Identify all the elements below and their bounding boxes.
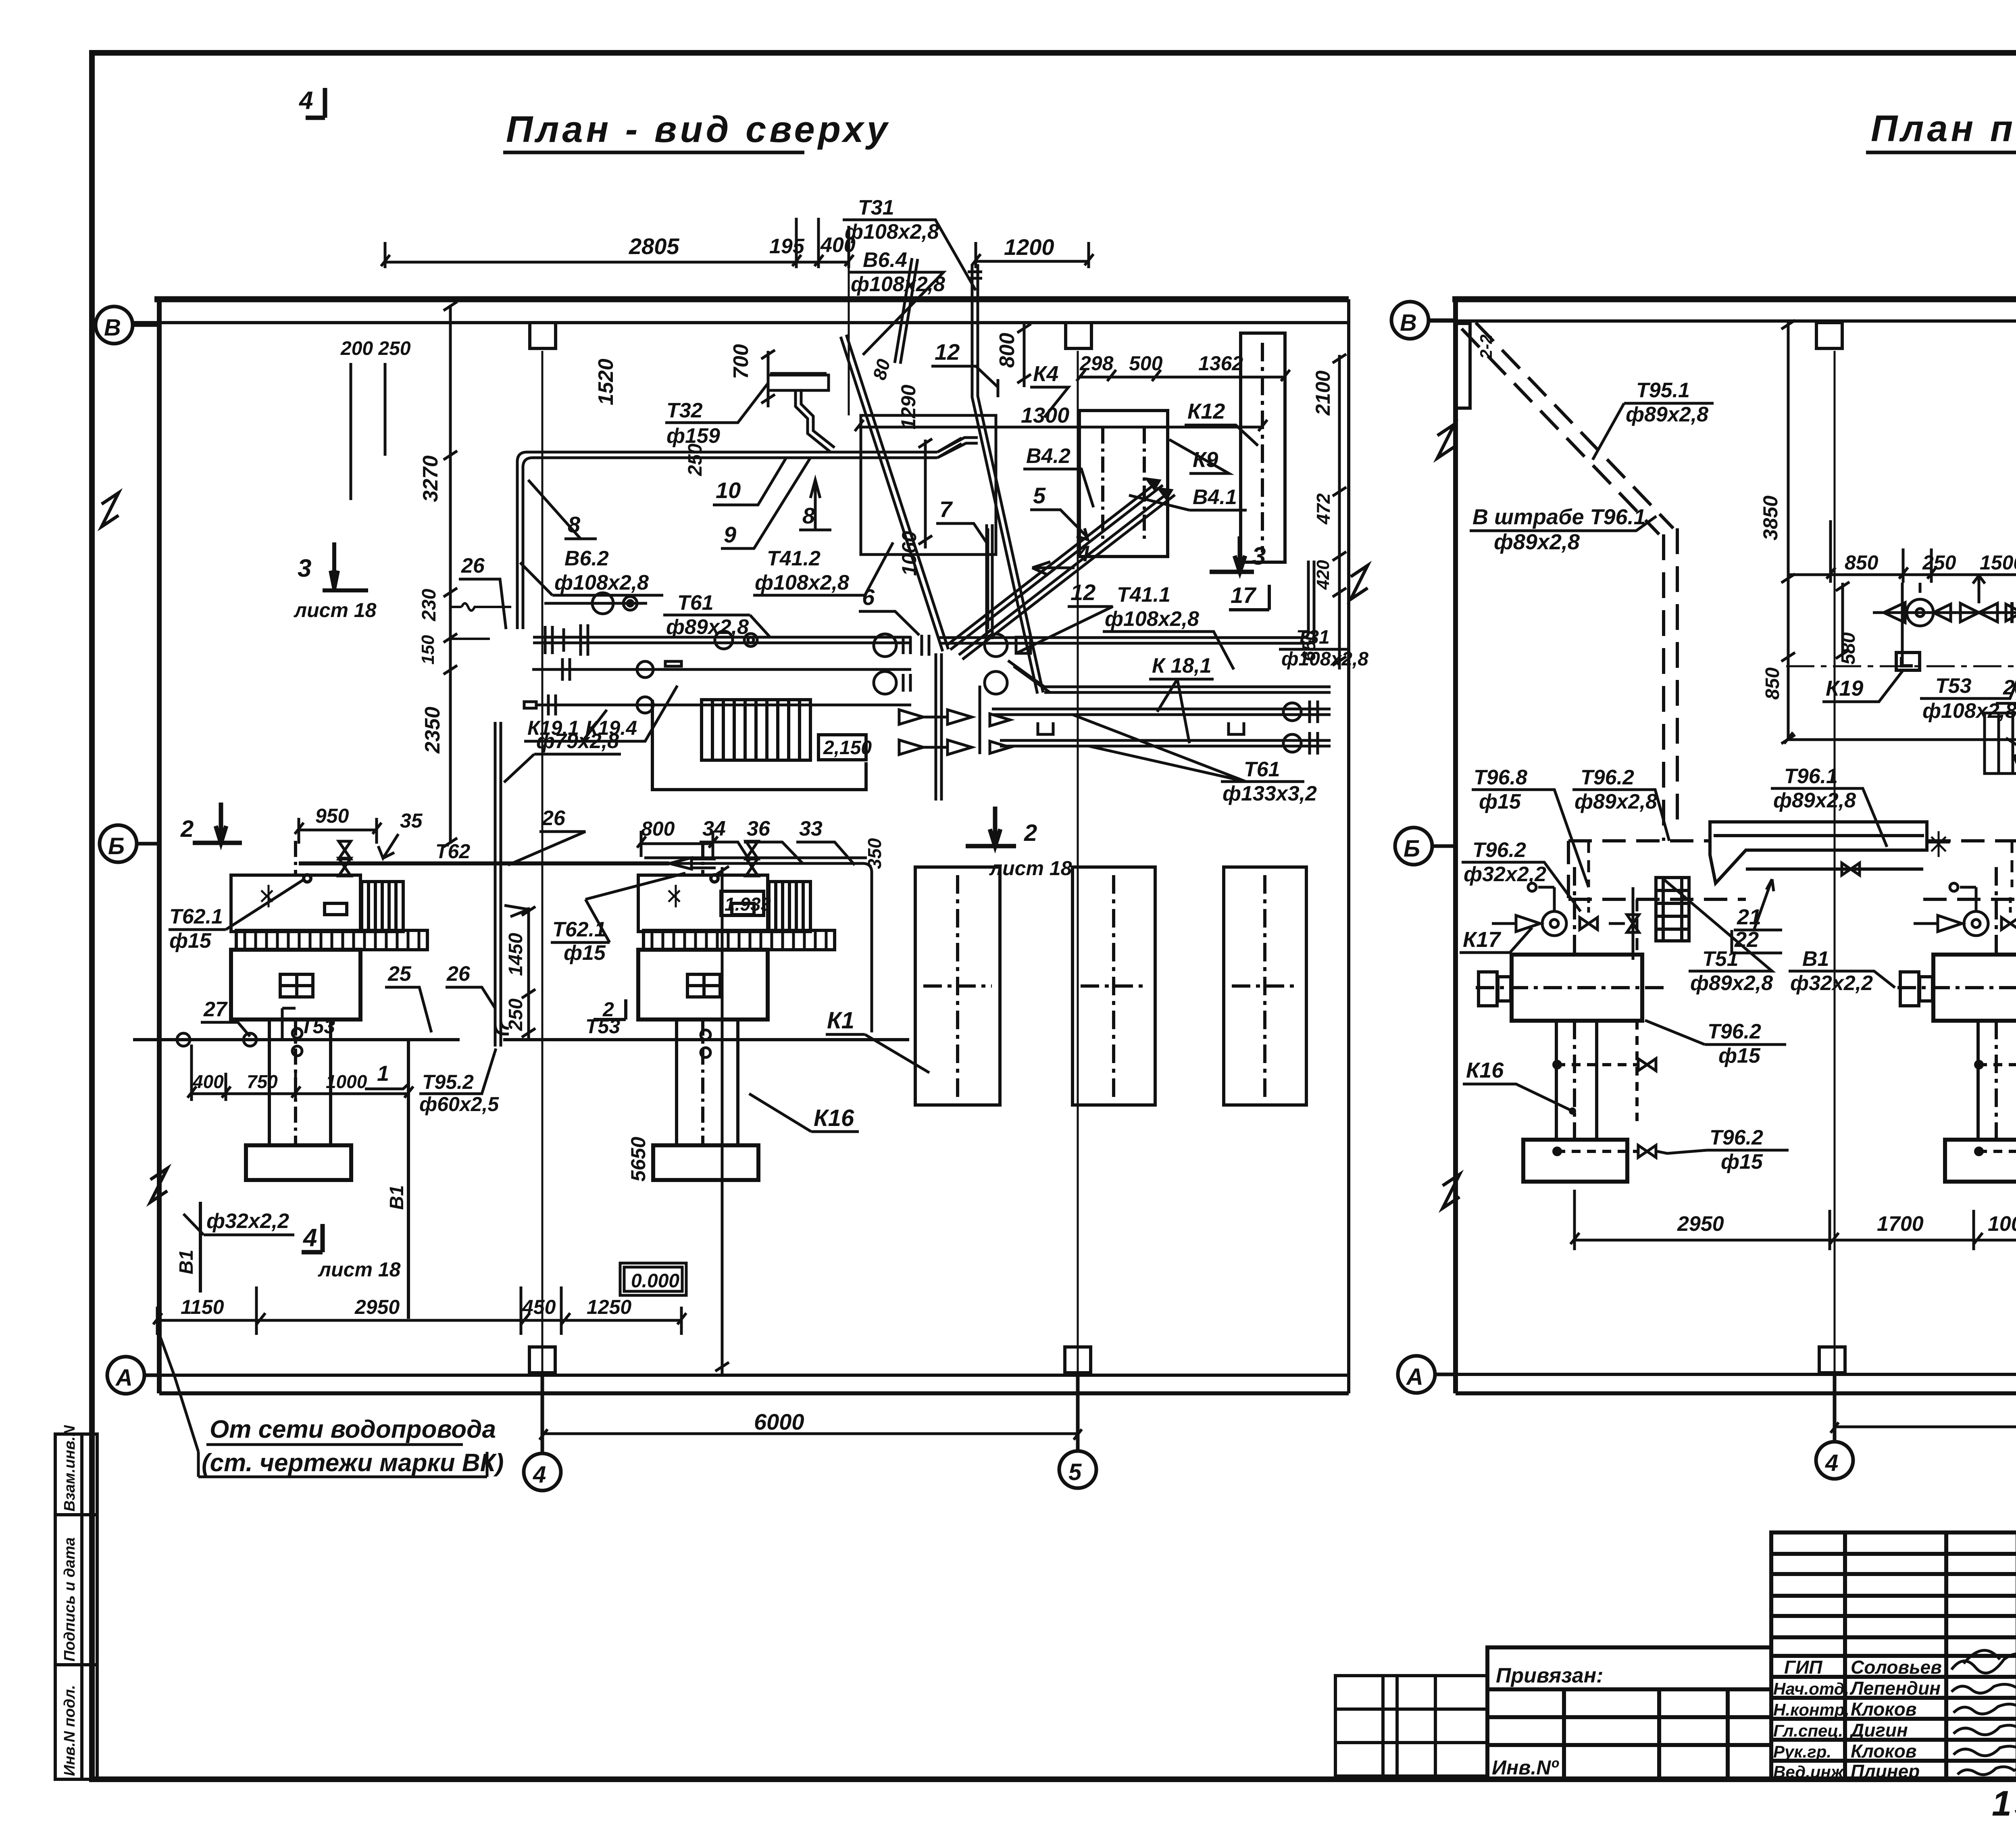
svg-text:3270: 3270 [419, 455, 442, 502]
svg-text:5650: 5650 [627, 1137, 650, 1182]
svg-text:250: 250 [685, 444, 706, 476]
svg-text:1450: 1450 [505, 933, 527, 976]
svg-text:Т95.2: Т95.2 [422, 1071, 474, 1093]
stairs right plan unit1 [1656, 878, 1689, 941]
svg-text:26: 26 [461, 554, 485, 578]
boiler unit K16 left plan no.2 [638, 841, 835, 1180]
svg-text:Т95.1: Т95.1 [1636, 379, 1690, 402]
top dim 1200 [972, 242, 1093, 268]
svg-text:Нач.отд.: Нач.отд. [1773, 1679, 1849, 1698]
svg-text:1290: 1290 [897, 385, 920, 429]
section mark 4 top [306, 88, 325, 118]
pipe К19 run [532, 658, 911, 681]
pipe Т41.1 run with riser [939, 561, 1314, 643]
svg-text:1700: 1700 [1877, 1212, 1924, 1236]
dim 950 35 [295, 818, 381, 844]
svg-text:От сети водопровода: От сети водопровода [210, 1416, 496, 1443]
section mark 2 left [193, 803, 242, 843]
svg-text:Т53: Т53 [1935, 674, 1972, 698]
svg-text:Т96.2: Т96.2 [1472, 838, 1526, 862]
svg-text:Клоков: Клоков [1851, 1699, 1917, 1720]
boxed level 0.000 left plan [620, 1263, 686, 1295]
svg-text:195: 195 [769, 235, 805, 258]
grid line 4 right plan [1834, 351, 1836, 1440]
svg-text:ф89х2,8: ф89х2,8 [666, 615, 749, 639]
dashed verticals to boilers [1589, 841, 2016, 955]
svg-text:ф15: ф15 [1718, 1044, 1761, 1067]
pipe Т61 run [533, 624, 911, 656]
box К9 left plan [1079, 411, 1168, 557]
diagonal pipe Т41.2 [841, 335, 948, 651]
svg-text:Т41.2: Т41.2 [767, 547, 821, 570]
left plan axis А line [144, 1374, 1349, 1377]
svg-text:230: 230 [419, 589, 440, 621]
column stubs left plan [530, 323, 556, 348]
tank K1 column 3 [1224, 867, 1306, 1105]
svg-text:ф15: ф15 [1721, 1150, 1763, 1174]
svg-text:9: 9 [724, 522, 736, 547]
svg-text:250: 250 [1922, 551, 1956, 574]
svg-text:2805: 2805 [629, 234, 679, 259]
axis circle А right [1398, 1356, 1456, 1393]
svg-text:1250: 1250 [587, 1296, 631, 1318]
section mark 3 right [1210, 536, 1254, 572]
svg-text:А: А [115, 1365, 133, 1391]
top dim 2805 195 400 [381, 218, 854, 268]
dim 1300 [855, 420, 1267, 431]
stairs near Т53 [1985, 713, 2016, 773]
svg-text:Т96.8: Т96.8 [1474, 766, 1527, 789]
svg-text:26: 26 [446, 962, 471, 986]
section mark 2 right with лист 18 [966, 807, 1016, 846]
svg-text:В: В [1400, 310, 1417, 336]
svg-text:28: 28 [2003, 676, 2016, 699]
svg-text:ф32х2,2: ф32х2,2 [1464, 863, 1546, 886]
svg-text:лист 18: лист 18 [294, 599, 377, 621]
svg-text:Дигин: Дигин [1849, 1720, 1908, 1741]
box К4 outline left plan [861, 415, 996, 555]
svg-text:1300: 1300 [1021, 403, 1069, 427]
svg-text:26: 26 [541, 807, 566, 830]
svg-text:0.000: 0.000 [631, 1270, 679, 1292]
pilaster top left [1456, 323, 1470, 408]
svg-text:1.933: 1.933 [725, 894, 771, 915]
approvals table left of privyazan [1335, 1676, 1487, 1776]
svg-text:(ст. чертежи марки ВК): (ст. чертежи марки ВК) [202, 1449, 504, 1477]
pipe Т32 drop [768, 373, 835, 452]
svg-text:800: 800 [641, 817, 675, 840]
pipe К19 lower run right [1000, 732, 1331, 755]
svg-text:Б: Б [108, 833, 125, 859]
vertical drop pipe from junction [936, 653, 941, 801]
dim extension K4 [848, 250, 850, 415]
svg-text:К17: К17 [1463, 928, 1502, 952]
svg-text:750: 750 [247, 1071, 278, 1092]
axis circle Б right [1395, 828, 1456, 865]
svg-text:В6.2: В6.2 [564, 547, 609, 570]
left plan left wall [157, 299, 162, 1393]
dim 6000 bottom left plan [539, 1429, 1082, 1440]
right plan left wall [1453, 299, 1458, 1393]
svg-text:1362: 1362 [1198, 352, 1243, 375]
svg-text:4: 4 [302, 1224, 317, 1252]
svg-text:6: 6 [862, 584, 875, 610]
svg-text:ф89х2,8: ф89х2,8 [1494, 530, 1580, 554]
bottom dims 2950 1700 1000 400 [1570, 1190, 2016, 1250]
left margin stamp boxes [55, 1434, 97, 1779]
pipe В6.4 wall crossing [895, 258, 918, 364]
vertical dim chain x1117 [444, 302, 457, 847]
svg-text:950: 950 [315, 805, 349, 827]
dim line y1834 [1784, 732, 2016, 744]
svg-text:ф32х2,2: ф32х2,2 [206, 1209, 289, 1233]
svg-text:Лепендин: Лепендин [1849, 1678, 1941, 1699]
svg-text:7: 7 [939, 496, 953, 522]
svg-text:1200: 1200 [1004, 234, 1054, 260]
svg-text:200 250: 200 250 [340, 338, 411, 359]
svg-text:2: 2 [180, 816, 194, 842]
platform outline by stairs [652, 700, 866, 790]
dim 1150 2950 450 1250 [153, 1286, 686, 1335]
svg-text:План по 1-1 (повернуто): План по 1-1 (повернуто) [1871, 108, 2016, 149]
svg-text:В: В [104, 315, 121, 341]
left plan top wall [154, 296, 1349, 302]
svg-text:Т32: Т32 [666, 399, 703, 422]
svg-text:В штрабе Т96.1: В штрабе Т96.1 [1472, 505, 1646, 529]
svg-text:8: 8 [802, 503, 815, 528]
svg-text:400: 400 [192, 1071, 224, 1092]
top dim row 850 250 1500 750 450 612 450 520 1910 200 [1788, 411, 2016, 583]
svg-text:ф108х2,8: ф108х2,8 [1105, 607, 1199, 631]
pipe К19.1 lower run [524, 694, 911, 715]
svg-text:800: 800 [996, 333, 1019, 368]
svg-text:Т96.2: Т96.2 [1710, 1126, 1763, 1149]
valve triangles cluster [899, 686, 1010, 755]
svg-text:2: 2 [602, 998, 614, 1021]
right plan bottom wall [1456, 1391, 2016, 1395]
section mark 3 left with лист 18 [323, 542, 368, 590]
pipe Т53 run [133, 1038, 909, 1041]
svg-text:ф79х2,8: ф79х2,8 [536, 730, 619, 753]
left plan right wall [1347, 299, 1350, 1393]
svg-text:Привязан:: Привязан: [1496, 1664, 1603, 1687]
box К19 [1896, 653, 1920, 670]
boxed level 1.933 [721, 891, 764, 915]
svg-text:580: 580 [1838, 632, 1859, 665]
svg-text:А: А [1406, 1364, 1423, 1390]
svg-text:2950: 2950 [354, 1296, 400, 1318]
svg-text:2,150: 2,150 [823, 737, 872, 759]
axis circle Б left [100, 825, 159, 862]
pipe φ79 riser [495, 722, 501, 1047]
dim 5650 rotated [715, 866, 729, 1375]
svg-text:ф108х2,8: ф108х2,8 [1281, 648, 1368, 670]
axis circle В right [1391, 302, 1456, 339]
svg-text:1060: 1060 [898, 531, 921, 576]
svg-text:В4.2: В4.2 [1026, 444, 1070, 468]
svg-text:250: 250 [505, 999, 527, 1031]
tank K1 column 1 [915, 867, 1000, 1105]
pipe В6.2 loop [517, 438, 962, 629]
burner valve cluster unit R1 [1492, 883, 1639, 960]
pipe К18.1 run [1008, 661, 1331, 692]
svg-text:1150: 1150 [181, 1296, 224, 1318]
svg-text:ф108х2,8: ф108х2,8 [845, 220, 939, 244]
svg-text:650: 650 [1298, 630, 1319, 661]
grid circle 5 left [1059, 1375, 1096, 1488]
svg-text:Т96.1: Т96.1 [1784, 765, 1838, 788]
tank K1 column 2 [1073, 867, 1155, 1105]
svg-text:ф89х2,8: ф89х2,8 [1690, 972, 1773, 995]
svg-text:План - вид сверху: План - вид сверху [506, 109, 891, 150]
grid circle 4 left [524, 1375, 561, 1491]
svg-text:В6.4: В6.4 [863, 248, 907, 272]
svg-text:Т51: Т51 [1702, 947, 1739, 971]
svg-text:В1: В1 [176, 1250, 197, 1274]
svg-text:ф108х2,8: ф108х2,8 [755, 571, 849, 594]
svg-text:Взам.инв.N: Взам.инв.N [61, 1425, 78, 1512]
svg-text:К1: К1 [827, 1007, 854, 1034]
svg-text:2100: 2100 [1312, 371, 1334, 416]
dashed pipe Т95.1 diagonal [1462, 323, 1677, 841]
svg-text:ф60х2,5: ф60х2,5 [419, 1093, 499, 1115]
diagonal pipe Т31 drop [968, 264, 1043, 694]
svg-text:12: 12 [1070, 580, 1095, 605]
left plan bottom wall [159, 1391, 1349, 1395]
svg-text:К4: К4 [1033, 362, 1058, 386]
collector tank top [1710, 822, 1950, 883]
svg-text:850: 850 [1762, 667, 1783, 700]
svg-text:420: 420 [1313, 560, 1333, 590]
svg-text:4: 4 [1825, 1450, 1838, 1476]
svg-text:150: 150 [418, 635, 438, 665]
svg-text:ГИП: ГИП [1784, 1657, 1822, 1678]
svg-text:Т61: Т61 [677, 591, 714, 615]
svg-text:2950: 2950 [1677, 1212, 1724, 1236]
svg-text:ф15: ф15 [1479, 790, 1521, 813]
svg-text:Гл.спец.: Гл.спец. [1773, 1721, 1843, 1740]
boiler unit right plan no.1 [1476, 867, 1665, 1182]
svg-text:3850: 3850 [1759, 496, 1782, 540]
svg-text:Б: Б [1404, 836, 1420, 862]
svg-text:Клоков: Клоков [1851, 1741, 1917, 1762]
svg-text:1520: 1520 [594, 359, 618, 405]
svg-text:700: 700 [729, 344, 753, 379]
svg-text:2: 2 [1024, 820, 1037, 846]
pipe Т62 right leg down [644, 858, 872, 1032]
svg-text:3: 3 [298, 555, 311, 582]
svg-text:ф159: ф159 [666, 424, 720, 448]
grid circle 4 right [1816, 1374, 1853, 1479]
svg-text:ф89х2,8: ф89х2,8 [1626, 403, 1708, 426]
axis circle А left [107, 1357, 159, 1394]
pipe Т62 run [299, 861, 669, 865]
svg-text:ф89х2,8: ф89х2,8 [1773, 789, 1856, 812]
axis circle В left [96, 306, 159, 344]
grid line 4 left plan [541, 351, 544, 1452]
svg-text:298: 298 [1079, 352, 1114, 375]
grid line 5 left plan [1077, 351, 1079, 1452]
svg-text:ф108х2,8: ф108х2,8 [554, 571, 649, 594]
svg-text:850: 850 [1845, 551, 1879, 574]
svg-text:10: 10 [716, 477, 741, 503]
section mark 4 bottom with лист 18 [302, 1224, 323, 1252]
axis centerline Т53 [1786, 665, 2016, 667]
svg-text:19734-01: 19734-01 [1992, 1783, 2016, 1823]
svg-text:ф15: ф15 [564, 941, 606, 965]
pipe elbow at В6.2 end [937, 438, 978, 458]
svg-text:К 18,1: К 18,1 [1152, 654, 1212, 678]
boiler unit K16 left plan no.1 [231, 841, 427, 1180]
svg-text:500: 500 [1129, 352, 1163, 375]
dim 400 750 1000 [187, 1045, 413, 1101]
svg-text:35: 35 [400, 809, 423, 832]
privyazan box [1487, 1647, 1771, 1779]
svg-text:4: 4 [298, 87, 313, 115]
title block outer [1771, 1532, 2016, 1779]
svg-text:Н.контр.: Н.контр. [1773, 1700, 1849, 1719]
boiler unit right plan no.2 [1897, 867, 2016, 1182]
svg-text:27: 27 [203, 998, 228, 1021]
vertical dim 3850 850 [1781, 320, 1795, 744]
svg-text:Инв.Nº: Инв.Nº [1492, 1756, 1559, 1779]
svg-text:2350: 2350 [421, 707, 444, 754]
bracket marks [1038, 722, 1244, 734]
dim 298 500 1362 [1077, 370, 1290, 381]
svg-text:1000: 1000 [326, 1071, 367, 1092]
svg-text:12: 12 [935, 339, 960, 365]
svg-text:К19: К19 [1826, 676, 1863, 701]
signatures squiggles [1951, 1650, 2016, 1774]
pipe Т61 lower run [992, 701, 1331, 723]
svg-text:Т96.2: Т96.2 [1581, 766, 1634, 789]
svg-text:Рук.гр.: Рук.гр. [1773, 1742, 1831, 1761]
svg-text:450: 450 [522, 1296, 556, 1318]
svg-text:ф32х2,2: ф32х2,2 [1790, 972, 1873, 995]
right plan top wall [1452, 296, 2016, 302]
svg-text:6000: 6000 [754, 1409, 804, 1434]
tall rect К12 left plan [1241, 333, 1285, 562]
svg-text:Т62.1: Т62.1 [169, 905, 223, 928]
valve row top [1873, 575, 2016, 665]
svg-text:Вед.инж.: Вед.инж. [1773, 1762, 1848, 1781]
svg-text:Т41.1: Т41.1 [1117, 583, 1170, 607]
svg-text:1: 1 [377, 1061, 389, 1086]
stairs ladder left plan [702, 700, 810, 760]
svg-text:5: 5 [1068, 1459, 1082, 1485]
svg-text:34: 34 [702, 817, 726, 840]
svg-text:ф89х2,8: ф89х2,8 [1574, 790, 1657, 813]
svg-text:К16: К16 [1466, 1058, 1504, 1082]
svg-text:ф133х3,2: ф133х3,2 [1223, 782, 1317, 805]
column stubs right plan [1816, 323, 1842, 348]
dim 800 34 36 33 row [637, 831, 718, 857]
dashed network horizontal upper [1568, 841, 2016, 899]
svg-text:Т62: Т62 [435, 840, 470, 863]
svg-text:лист 18: лист 18 [318, 1258, 401, 1281]
valve circles on В6.2 area [544, 593, 647, 614]
dim 6000 bottom right plan [1831, 1422, 2016, 1433]
svg-text:33: 33 [799, 817, 823, 840]
svg-text:Инв.N подл.: Инв.N подл. [61, 1685, 78, 1776]
svg-text:Т61: Т61 [1244, 758, 1280, 781]
svg-text:В1: В1 [386, 1185, 408, 1210]
svg-text:В4.1: В4.1 [1193, 486, 1237, 509]
svg-text:5: 5 [1033, 483, 1046, 508]
svg-text:ф15: ф15 [169, 929, 212, 953]
svg-text:К12: К12 [1187, 399, 1225, 423]
svg-text:4: 4 [1077, 541, 1090, 566]
svg-text:472: 472 [1313, 493, 1334, 525]
svg-text:Соловьев: Соловьев [1851, 1657, 1942, 1678]
svg-text:Подпись и дата: Подпись и дата [61, 1537, 78, 1662]
vertical pipe 7 [987, 524, 992, 639]
svg-text:К16: К16 [814, 1105, 854, 1131]
svg-text:Т31: Т31 [858, 196, 894, 219]
svg-text:В1: В1 [1802, 947, 1829, 971]
svg-text:1500: 1500 [1980, 551, 2016, 574]
svg-text:4: 4 [533, 1461, 546, 1488]
svg-text:Плинер: Плинер [1851, 1761, 1920, 1782]
right plan axis А line [1435, 1373, 2016, 1376]
boxed level 2,150 [818, 735, 866, 760]
pipe junction pumps cluster [874, 634, 1031, 694]
svg-text:Т96.2: Т96.2 [1708, 1020, 1761, 1043]
diagonal pipes В4 pair [947, 479, 1175, 659]
label 2 flag [594, 999, 626, 1019]
svg-text:Т53: Т53 [300, 1015, 335, 1038]
svg-text:36: 36 [747, 817, 771, 840]
svg-text:17: 17 [1231, 582, 1257, 608]
riser В1 vertical [200, 1040, 408, 1319]
svg-text:25: 25 [387, 962, 412, 986]
svg-text:1000: 1000 [1988, 1212, 2016, 1236]
wall break marks [102, 493, 1368, 1202]
wall break marks right plan [1437, 416, 2016, 1208]
